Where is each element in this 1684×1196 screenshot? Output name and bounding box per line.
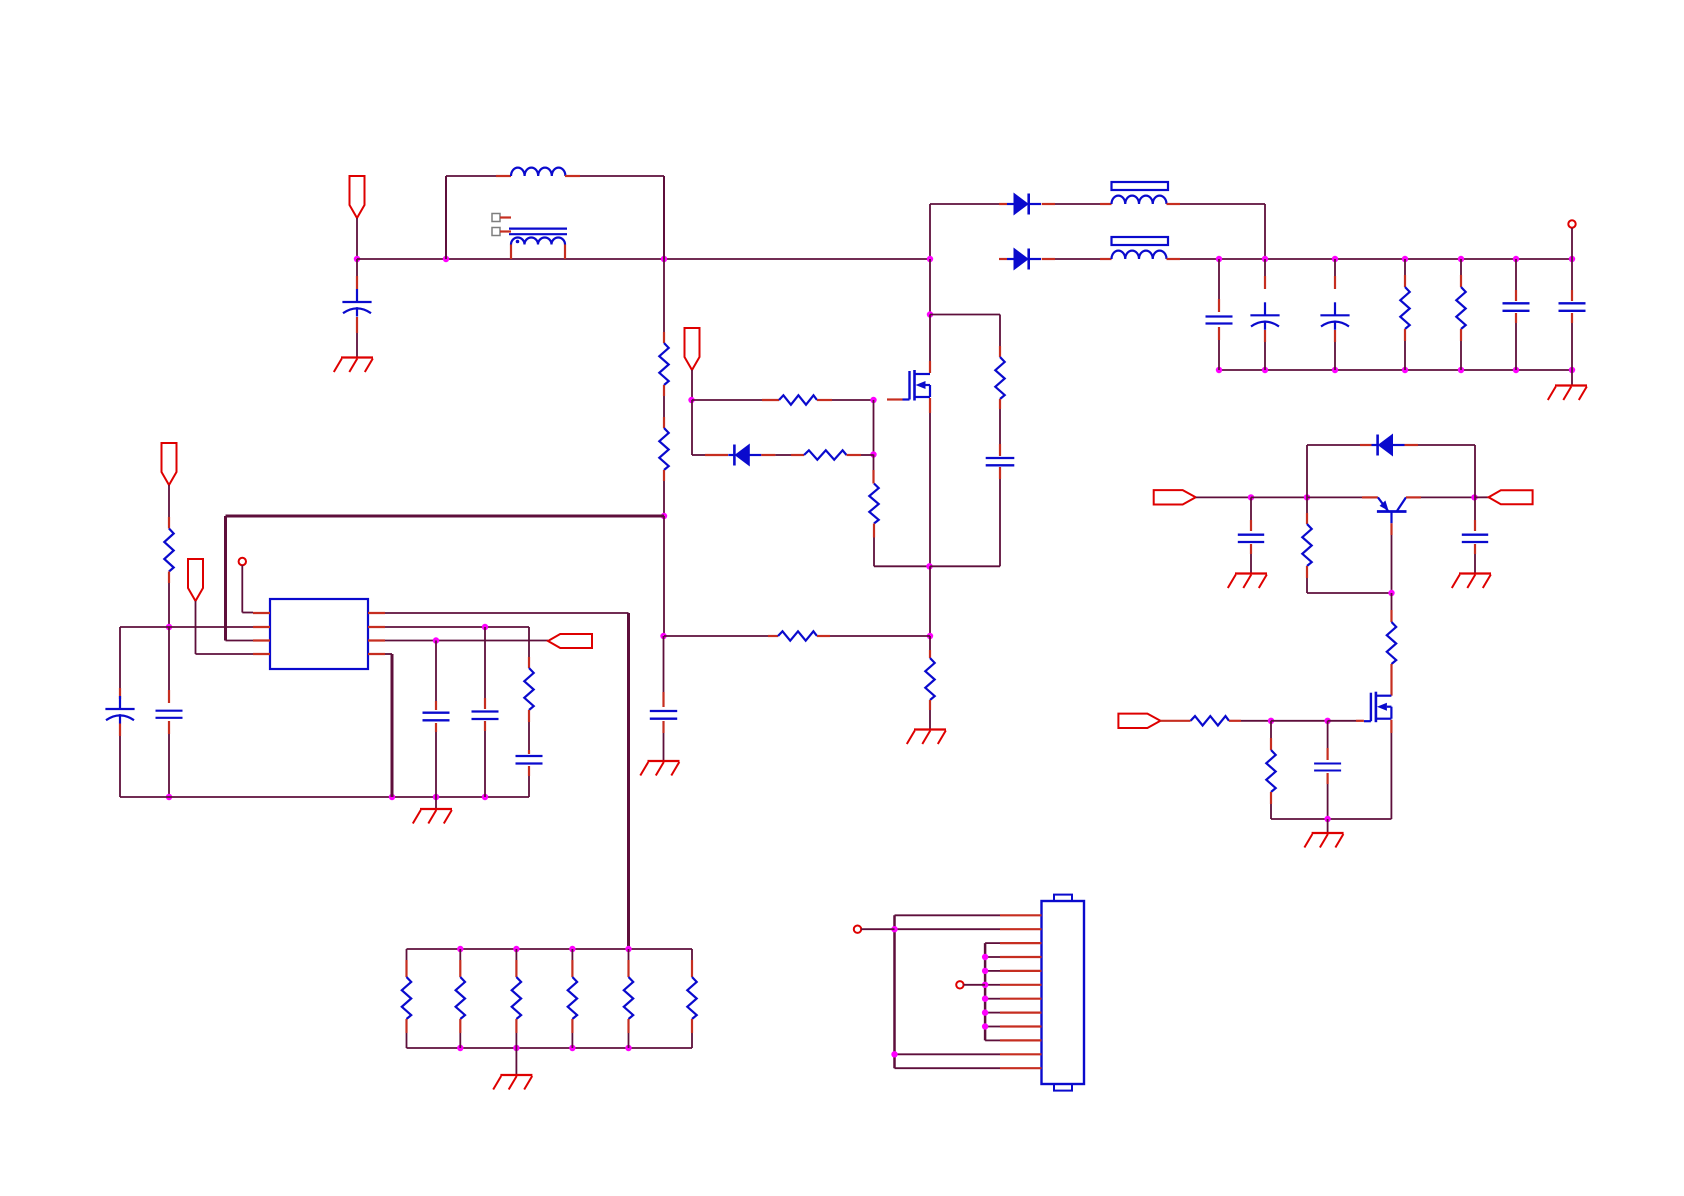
inductor L2 core: [1112, 182, 1169, 190]
wire: [627, 1019, 629, 1048]
wire: [168, 485, 170, 529]
wire: [691, 1019, 693, 1048]
wire: [571, 949, 573, 977]
wire: [1306, 445, 1308, 497]
resistor R1: [659, 343, 668, 385]
wire: [1250, 497, 1252, 531]
wire: [1571, 228, 1573, 259]
junction: [1458, 367, 1464, 373]
wire: [168, 627, 170, 703]
transformer T1 core: [509, 229, 567, 235]
junction: [569, 946, 575, 952]
junction: [1262, 367, 1268, 373]
wire: [1229, 720, 1271, 722]
port P6: [188, 559, 203, 601]
wire: [662, 721, 664, 761]
wire: [1327, 819, 1329, 833]
wire: [1334, 330, 1336, 370]
port P2: [685, 328, 700, 370]
junction: [1304, 494, 1310, 500]
wire: [515, 949, 517, 977]
wire: [985, 984, 1000, 986]
port P10: [1118, 714, 1160, 728]
junction: [982, 996, 988, 1002]
junction: [1513, 256, 1519, 262]
capacitor C4: [1206, 317, 1233, 324]
wire: [435, 641, 437, 711]
transistor Q1: [903, 370, 931, 401]
junction: [982, 982, 988, 988]
wire: [929, 636, 931, 658]
junction: [927, 633, 933, 639]
wire: [226, 515, 665, 518]
wire: [999, 399, 1001, 456]
junction: [482, 794, 488, 800]
wire: [999, 258, 1007, 260]
wire: [1306, 497, 1308, 524]
junction: [1513, 367, 1519, 373]
inductor L3 core: [1112, 237, 1169, 245]
wire: [691, 400, 693, 455]
wire: [873, 400, 875, 455]
wire: [1218, 327, 1220, 370]
capacitor C14: [516, 756, 543, 764]
connector J1 pin 7: [1000, 998, 1042, 1000]
wire: [405, 1019, 407, 1048]
pin 7: [368, 626, 385, 628]
wire: [1334, 259, 1336, 289]
capacitor C11: [156, 711, 183, 718]
resistor R15: [512, 977, 521, 1019]
resistor R5: [869, 484, 878, 524]
wire: [628, 949, 630, 977]
wire: [1042, 258, 1112, 260]
wire: [385, 653, 392, 655]
junction: [982, 954, 988, 960]
wire: [1251, 496, 1307, 498]
junction node G: [688, 397, 694, 403]
junction: [625, 1045, 631, 1051]
wire: [895, 914, 1001, 916]
wire: [893, 915, 896, 1068]
pin 5: [368, 653, 385, 655]
connector J1 pin 3: [1000, 942, 1042, 944]
wire: [196, 601, 254, 654]
inductor L2: [1112, 196, 1167, 204]
resistor R17: [624, 977, 633, 1019]
wire: [929, 259, 931, 315]
connector J1 pin 5: [1000, 970, 1042, 972]
wire: [1042, 203, 1112, 205]
port P7: [548, 634, 592, 648]
wire: [984, 943, 987, 1040]
port P8: [1154, 490, 1196, 504]
connector J1 pin 10: [1000, 1039, 1042, 1041]
wire: [120, 626, 253, 628]
wire: [663, 385, 665, 428]
wire: [571, 1019, 573, 1048]
wire: [847, 454, 874, 456]
port P4: [239, 558, 246, 565]
wire: [1271, 720, 1328, 722]
wire: [1404, 259, 1406, 287]
wire: [663, 470, 665, 516]
wire: [895, 1067, 1001, 1069]
junction: [513, 946, 519, 952]
ground: [1304, 833, 1343, 848]
wire: [985, 1026, 1000, 1028]
junction: [1248, 494, 1254, 500]
wire: [528, 766, 530, 797]
wire: [817, 635, 930, 637]
wire: [930, 565, 1000, 567]
wire: [356, 218, 358, 259]
junction: [1324, 816, 1330, 822]
capacitor C6: [1320, 302, 1349, 330]
wire: [895, 1053, 1001, 1055]
junction: [457, 1045, 463, 1051]
wire: [895, 928, 1001, 930]
wire: [357, 258, 930, 260]
wire: [1571, 313, 1573, 370]
junction: [1332, 367, 1338, 373]
wire: [1391, 593, 1393, 622]
wire: [691, 949, 693, 977]
ground: [1228, 574, 1267, 589]
junction: [927, 311, 933, 317]
junction: [1471, 494, 1477, 500]
wire: [692, 454, 728, 456]
wire: [1264, 330, 1266, 370]
wire: [817, 399, 873, 401]
junction: [457, 946, 463, 952]
pin 4: [253, 653, 270, 655]
junction: [982, 1009, 988, 1015]
wire: [385, 640, 548, 642]
resistor R2: [659, 428, 668, 470]
connector J1 pin 4: [1000, 956, 1042, 958]
junction: [1216, 256, 1222, 262]
wire: [484, 721, 486, 797]
wire: [356, 259, 358, 289]
junction: [569, 1045, 575, 1051]
wire: [627, 613, 630, 949]
wire: [663, 176, 665, 259]
port P3 (output): [1568, 220, 1575, 227]
junction: [660, 633, 666, 639]
wire: [964, 984, 986, 986]
wire: [224, 516, 227, 641]
diode D2: [1007, 194, 1041, 215]
wire: [929, 700, 931, 730]
wire: [1390, 664, 1392, 696]
inductor L3: [1112, 251, 1167, 259]
ground: [640, 761, 679, 776]
junction node A: [354, 256, 360, 262]
wire: [663, 516, 665, 636]
wire: [985, 998, 1000, 1000]
capacitor C3: [650, 711, 677, 719]
capacitor C1: [342, 289, 371, 317]
wire: [459, 949, 461, 977]
resistor R8: [778, 631, 817, 640]
ground: [334, 358, 373, 373]
junction: [166, 624, 172, 630]
wire: [999, 315, 1001, 358]
connector J1 pin 6: [1000, 984, 1042, 986]
wire: [168, 721, 170, 797]
connector J1 pin 8: [1000, 1011, 1042, 1013]
wire: [385, 626, 529, 628]
resistor R10: [1456, 287, 1465, 329]
resistor R12: [524, 668, 533, 710]
junction: [1402, 367, 1408, 373]
wire: [873, 455, 875, 484]
connector J1 pin 9: [1000, 1025, 1042, 1027]
junction: [927, 256, 933, 262]
resistor R18: [687, 977, 696, 1019]
port P9: [1489, 490, 1533, 504]
wire: [1515, 259, 1517, 301]
transformer T1 nc pin 1: [492, 214, 511, 222]
wire: [985, 1012, 1000, 1014]
wire: [356, 317, 358, 358]
resistor R4: [804, 450, 847, 459]
junction: [1216, 367, 1222, 373]
ground: [1452, 574, 1491, 589]
wire: [515, 1019, 517, 1048]
capacitor C16: [1462, 535, 1488, 542]
wire: [929, 204, 931, 259]
port P1 (input): [350, 176, 365, 218]
wire: [1327, 721, 1329, 760]
junction: [661, 256, 667, 262]
wire: [1271, 818, 1391, 820]
wire: [242, 565, 253, 612]
junction: [433, 794, 439, 800]
wire: [1167, 203, 1266, 205]
pin 2: [253, 626, 270, 628]
resistor R17: [1302, 524, 1311, 566]
connector J1 pin 1: [1000, 914, 1042, 916]
wire: [1571, 370, 1573, 386]
wire: [1474, 445, 1476, 497]
wire: [580, 175, 664, 177]
capacitor C7: [1503, 303, 1530, 311]
wire: [1264, 259, 1266, 289]
port P11: [854, 926, 861, 933]
wire: [985, 942, 1000, 944]
junction: [891, 1051, 897, 1057]
wire: [1390, 720, 1392, 819]
junction: [389, 794, 395, 800]
resistor R19: [1191, 716, 1229, 725]
diode D3: [1007, 249, 1041, 270]
connector J1 pin 2: [1000, 928, 1042, 930]
junction: [1569, 256, 1575, 262]
junction: [1458, 256, 1464, 262]
junction: [433, 637, 439, 643]
port P12: [956, 981, 963, 988]
wire: [446, 175, 496, 177]
junction: [166, 794, 172, 800]
wire: [1250, 544, 1252, 574]
junction: [1262, 256, 1268, 262]
wire: [515, 1048, 517, 1075]
capacitor C15: [1238, 535, 1264, 542]
ground: [493, 1075, 532, 1090]
wire: [385, 612, 629, 614]
resistor R13: [402, 977, 411, 1019]
junction: [1324, 718, 1330, 724]
junction: [443, 256, 449, 262]
junction: [1569, 367, 1575, 373]
resistor R11: [164, 529, 173, 572]
wire: [120, 796, 529, 798]
wire: [930, 203, 999, 205]
wire: [1307, 444, 1372, 446]
wire: [407, 948, 693, 950]
junction: [982, 968, 988, 974]
junction: [1268, 718, 1274, 724]
wire: [1328, 720, 1364, 722]
resistor R18: [1387, 622, 1396, 664]
wire: [929, 315, 931, 374]
junction: [625, 946, 631, 952]
port P5: [162, 443, 177, 485]
IC U1: [270, 599, 368, 669]
wire: [1196, 496, 1251, 498]
junction: [926, 563, 932, 569]
wire: [874, 524, 930, 567]
junction: [482, 624, 488, 630]
wire: [1460, 259, 1462, 287]
resistor R7 (sense): [925, 658, 934, 700]
junction: [661, 513, 667, 519]
wire: [528, 627, 530, 668]
connector J1 body: [1042, 895, 1085, 1091]
transformer T1 winding: [511, 238, 565, 245]
wire: [1160, 720, 1190, 722]
wire: [1326, 773, 1328, 819]
wire: [1406, 496, 1475, 498]
wire: [887, 398, 903, 400]
wire: [999, 203, 1007, 205]
inductor L1: [496, 168, 580, 176]
resistor R16: [568, 977, 577, 1019]
wire: [119, 724, 121, 798]
wire: [435, 723, 437, 797]
wire: [406, 949, 408, 977]
capacitor C17: [1314, 764, 1341, 771]
capacitor C8: [1559, 303, 1586, 311]
diode D1: [728, 445, 761, 466]
wire: [391, 654, 394, 797]
wire: [1270, 721, 1272, 750]
wire: [861, 928, 894, 930]
junction: [1388, 590, 1394, 596]
capacitor C2 (snubber): [986, 458, 1015, 465]
wire: [761, 454, 804, 456]
capacitor C5: [1250, 302, 1279, 330]
capacitor C12: [423, 713, 450, 721]
wire: [528, 710, 530, 754]
wire: [1218, 259, 1220, 312]
resistor R9: [1400, 287, 1409, 329]
ground: [413, 809, 452, 824]
pin 6: [368, 639, 385, 641]
capacitor C13: [472, 712, 499, 720]
wire: [985, 1039, 1000, 1041]
wire: [929, 566, 931, 636]
transformer T1 pin stubs: [511, 245, 565, 260]
junction: [1402, 256, 1408, 262]
wire: [407, 1047, 693, 1049]
wire: [999, 467, 1001, 566]
transformer T1 nc pin 2: [492, 228, 511, 236]
pin 1: [253, 612, 270, 614]
wire: [1571, 259, 1573, 301]
wire: [1390, 523, 1392, 593]
ground: [1548, 386, 1587, 401]
wire: [663, 259, 665, 343]
resistor R14: [456, 977, 465, 1019]
junction: [1332, 256, 1338, 262]
pin 8: [368, 612, 385, 614]
capacitor C10: [105, 696, 134, 724]
wire: [985, 956, 1000, 958]
wire: [1474, 544, 1476, 574]
wire: [929, 398, 931, 566]
junction: [870, 397, 876, 403]
wire: [930, 314, 1000, 316]
wire: [1307, 566, 1392, 593]
wire: [435, 797, 437, 809]
wire: [1219, 369, 1572, 371]
wire: [664, 635, 778, 637]
wire: [1474, 497, 1476, 531]
wire: [1307, 496, 1378, 498]
ground: [907, 730, 946, 745]
connector J1 pin 11: [1000, 1053, 1042, 1055]
wire: [985, 970, 1000, 972]
wire: [1404, 329, 1406, 370]
transistor Q2: [1364, 692, 1392, 723]
wire: [1460, 329, 1462, 370]
wire: [691, 370, 693, 400]
wire: [459, 1019, 461, 1048]
wire: [1475, 496, 1489, 498]
wire: [1515, 313, 1517, 370]
wire: [1167, 258, 1573, 260]
wire: [445, 176, 447, 259]
transistor Q3: [1377, 497, 1407, 523]
wire: [484, 627, 486, 709]
junction: [982, 1023, 988, 1029]
junction: [513, 1045, 519, 1051]
pin 3: [253, 639, 270, 641]
wire: [1405, 444, 1476, 446]
junction: [891, 926, 897, 932]
wire: [226, 640, 254, 642]
wire: [119, 627, 121, 699]
wire: [1270, 792, 1272, 819]
wire: [168, 572, 170, 628]
junction: [870, 451, 876, 457]
wire: [692, 399, 779, 401]
resistor R3: [779, 395, 817, 404]
resistor R6 (snubber): [995, 357, 1004, 399]
